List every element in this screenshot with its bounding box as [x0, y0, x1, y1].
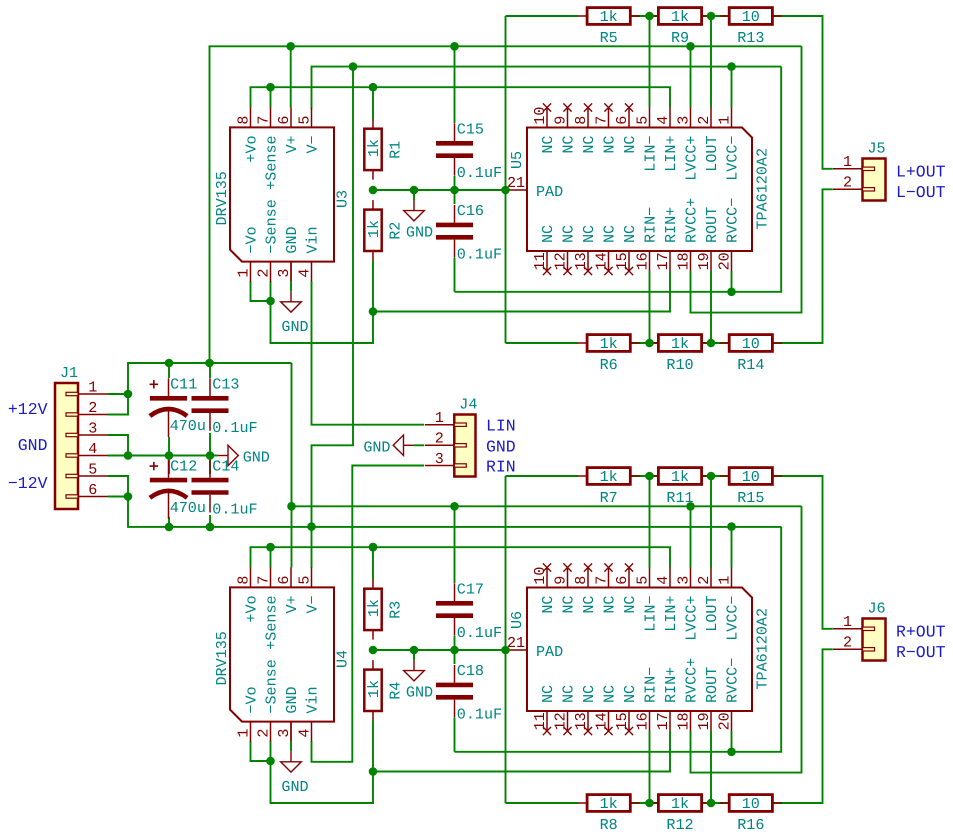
connector J5: [833, 140, 886, 201]
svg-text:3: 3: [88, 419, 97, 437]
svg-text:NC: NC: [601, 136, 619, 154]
svg-text:15: 15: [613, 712, 631, 730]
wire -12V to LVCC- pin1: [731, 67, 733, 108]
svg-text:1: 1: [715, 576, 733, 585]
wire PAD/divider vertical: [505, 16, 507, 343]
resistor R1: [364, 119, 404, 179]
wire +12V rail: [292, 363, 802, 506]
svg-text:1k: 1k: [600, 8, 618, 26]
svg-text:10: 10: [742, 795, 760, 813]
svg-text:13: 13: [572, 712, 590, 730]
svg-text:NC: NC: [621, 596, 639, 614]
svg-text:GND: GND: [243, 448, 270, 466]
svg-text:U6: U6: [508, 611, 526, 629]
svg-text:R1: R1: [387, 141, 405, 159]
svg-text:R4: R4: [387, 682, 405, 700]
pin 21 PAD: [506, 649, 528, 651]
svg-text:L−OUT: L−OUT: [896, 183, 946, 202]
svg-text:L+OUT: L+OUT: [896, 163, 946, 182]
wire -12V down to RVCC-: [455, 67, 782, 292]
resistor R2: [364, 200, 404, 260]
capacitor C17: [436, 581, 502, 642]
svg-text:15: 15: [613, 252, 631, 270]
svg-text:U4: U4: [334, 650, 352, 668]
svg-text:R7: R7: [600, 489, 618, 507]
svg-text:R2: R2: [387, 222, 405, 240]
gnd stub U pin3: [290, 262, 292, 282]
power symbol GND (left facing) at J4: [363, 435, 424, 456]
svg-text:−Vo: −Vo: [243, 226, 261, 253]
wire J1 pins 5+6 -12V: [108, 476, 129, 497]
svg-text:1k: 1k: [365, 599, 383, 617]
svg-text:DRV135: DRV135: [213, 171, 231, 225]
wire +Sense pin7: [270, 547, 272, 567]
junction at 169,526.9: [165, 523, 174, 532]
wire pin19 ROUT vertical: [710, 271, 712, 343]
wire +Sense pin7: [270, 87, 272, 107]
svg-text:NC: NC: [560, 596, 578, 614]
resistor R10: [649, 335, 711, 374]
svg-text:R8: R8: [600, 816, 618, 834]
wire +12V to LVCC+ pin3: [690, 46, 692, 107]
svg-text:16: 16: [633, 252, 651, 270]
svg-text:8: 8: [572, 116, 590, 125]
svg-text:NC: NC: [601, 596, 619, 614]
svg-text:7: 7: [254, 116, 272, 125]
svg-text:1k: 1k: [365, 220, 383, 238]
connector J6: [833, 600, 886, 661]
wire RVCC- pin20: [731, 271, 733, 292]
svg-text:LIN+: LIN+: [662, 596, 680, 632]
svg-text:5: 5: [88, 460, 97, 478]
svg-text:C12: C12: [170, 457, 197, 475]
svg-text:20: 20: [715, 252, 733, 270]
svg-text:V+: V+: [283, 135, 301, 153]
svg-text:TPA6120A2: TPA6120A2: [754, 148, 772, 230]
wire J1 pins 3+4 GND: [108, 435, 214, 456]
svg-text:J4: J4: [459, 396, 477, 414]
svg-text:1k: 1k: [600, 335, 618, 353]
svg-text:2: 2: [254, 269, 272, 278]
svg-text:R5: R5: [600, 29, 618, 47]
junction at 128,394: [124, 390, 133, 399]
svg-text:GND: GND: [18, 436, 48, 455]
svg-text:LIN+: LIN+: [662, 136, 680, 172]
junction at 311.5,526.6: [307, 522, 316, 531]
wire +12V to LVCC+ pin3: [690, 506, 692, 567]
svg-text:4: 4: [88, 440, 97, 458]
wire to output connector pin1: [773, 16, 833, 169]
wire mid divider row: [373, 189, 506, 191]
svg-text:RVCC+: RVCC+: [683, 198, 701, 243]
svg-text:C16: C16: [457, 202, 484, 220]
junction at 270.5,547.2: [266, 543, 275, 552]
svg-text:R3: R3: [387, 601, 405, 619]
wire to output connector pin2: [773, 649, 833, 803]
svg-text:GND: GND: [281, 318, 308, 336]
junction at 414,650: [410, 646, 419, 655]
junction at 128,455.5: [124, 451, 133, 460]
svg-text:3: 3: [275, 729, 293, 738]
svg-text:R16: R16: [737, 816, 764, 834]
svg-text:Vin: Vin: [304, 226, 322, 253]
svg-text:1k: 1k: [600, 795, 618, 813]
svg-text:11: 11: [531, 252, 549, 270]
resistor R11: [649, 468, 711, 507]
svg-text:2: 2: [695, 576, 713, 585]
wire pin16 RIN- vertical: [649, 271, 651, 343]
svg-text:17: 17: [654, 712, 672, 730]
wire pin16 RIN- vertical: [649, 731, 651, 803]
resistor R3: [364, 579, 404, 639]
wire Vin input: [312, 281, 425, 425]
resistor R14: [720, 335, 782, 374]
svg-text:17: 17: [654, 252, 672, 270]
junction at 690.5,46.3: [686, 42, 695, 51]
wire -Vo jog: [251, 281, 271, 301]
svg-text:RIN+: RIN+: [662, 667, 680, 703]
wire feedback row 2: [506, 802, 579, 804]
svg-text:RIN−: RIN−: [642, 207, 660, 243]
svg-text:7: 7: [592, 116, 610, 125]
wire +Vo row: [251, 547, 671, 567]
resistor R13: [720, 8, 782, 47]
svg-text:RVCC+: RVCC+: [683, 658, 701, 703]
svg-text:NC: NC: [580, 685, 598, 703]
resistor R7: [578, 468, 640, 507]
svg-text:U3: U3: [334, 190, 352, 208]
svg-text:NC: NC: [560, 225, 578, 243]
svg-text:C13: C13: [212, 376, 239, 394]
wire -Vo jog: [251, 741, 271, 761]
svg-text:DRV135: DRV135: [213, 631, 231, 685]
junction at 505.5,190: [501, 186, 510, 195]
svg-text:J1: J1: [60, 364, 78, 382]
junction at 210,455.5: [206, 451, 215, 460]
svg-text:NC: NC: [580, 136, 598, 154]
wire to output connector pin2: [773, 189, 833, 343]
svg-text:1k: 1k: [671, 8, 689, 26]
svg-text:470u: 470u: [170, 417, 206, 435]
svg-text:−Sense: −Sense: [263, 199, 281, 253]
svg-text:2: 2: [88, 399, 97, 417]
resistor R16: [720, 795, 782, 834]
svg-text:R14: R14: [737, 356, 764, 374]
wire -12V drop to bottom: [312, 67, 354, 527]
svg-text:GND: GND: [283, 686, 301, 713]
junction at 454.5,190: [450, 186, 459, 195]
svg-text:1: 1: [234, 729, 252, 738]
wire -Sense down: [271, 281, 374, 343]
junction at 711,343: [707, 339, 716, 348]
svg-text:6: 6: [613, 576, 631, 585]
wire cap column: [454, 46, 456, 123]
svg-text:5: 5: [633, 116, 651, 125]
svg-text:V+: V+: [283, 595, 301, 613]
svg-text:3: 3: [435, 450, 444, 468]
svg-text:3: 3: [674, 576, 692, 585]
svg-text:20: 20: [715, 712, 733, 730]
svg-text:NC: NC: [539, 685, 557, 703]
junction at 373,771.5: [369, 767, 378, 776]
pin 21 PAD: [506, 189, 528, 191]
svg-text:8: 8: [572, 576, 590, 585]
wire +Vo row: [251, 87, 671, 107]
svg-text:1: 1: [435, 409, 444, 427]
power symbol GND: [281, 281, 309, 336]
svg-text:7: 7: [592, 576, 610, 585]
svg-text:4: 4: [295, 729, 313, 738]
svg-text:7: 7: [254, 576, 272, 585]
svg-text:PAD: PAD: [536, 183, 563, 201]
svg-text:5: 5: [633, 576, 651, 585]
junction at 209.5,363: [205, 359, 214, 368]
svg-text:GND: GND: [406, 224, 433, 242]
svg-text:14: 14: [592, 712, 610, 730]
junction at 731.5,66.6: [727, 62, 736, 71]
svg-text:R10: R10: [666, 356, 693, 374]
svg-text:1k: 1k: [365, 139, 383, 157]
svg-text:R15: R15: [737, 489, 764, 507]
svg-text:J6: J6: [868, 600, 886, 618]
svg-text:0.1uF: 0.1uF: [457, 705, 502, 723]
capacitor C13: [192, 376, 258, 437]
svg-text:1k: 1k: [671, 335, 689, 353]
junction at 454.5,650: [450, 646, 459, 655]
wire -12V to V- pin5: [311, 527, 313, 568]
svg-text:5: 5: [295, 576, 313, 585]
svg-text:+Sense: +Sense: [263, 135, 281, 189]
wire J1 pins 1+2 +12V: [108, 363, 292, 415]
svg-text:4: 4: [295, 269, 313, 278]
svg-text:470u: 470u: [170, 499, 206, 517]
svg-text:V−: V−: [304, 595, 322, 613]
junction at 711,476: [707, 472, 716, 481]
connector J4: [425, 396, 478, 477]
svg-text:6: 6: [613, 116, 631, 125]
wire pin19 ROUT vertical: [710, 731, 712, 803]
svg-text:10: 10: [742, 335, 760, 353]
power symbol GND (right facing): [214, 445, 270, 466]
junction at 731.5,291.8: [727, 288, 736, 297]
wire +12V to V+ pin6: [290, 46, 292, 107]
wire feedback net row y16: [506, 15, 579, 17]
svg-text:LIN: LIN: [486, 417, 516, 436]
capacitor C16: [436, 202, 502, 263]
IC U3 DRV135: [213, 107, 352, 281]
svg-text:ROUT: ROUT: [703, 667, 721, 703]
junction at 373,650: [369, 646, 378, 655]
junction at 649.5,16: [645, 12, 654, 21]
svg-text:12: 12: [551, 252, 569, 270]
svg-text:GND: GND: [363, 438, 390, 456]
svg-text:NC: NC: [601, 225, 619, 243]
svg-text:19: 19: [695, 252, 713, 270]
gnd stub U pin3: [290, 722, 292, 742]
svg-text:NC: NC: [621, 685, 639, 703]
svg-text:C11: C11: [170, 376, 197, 394]
svg-text:1k: 1k: [600, 468, 618, 486]
svg-text:LVCC+: LVCC+: [683, 136, 701, 181]
svg-text:NC: NC: [621, 136, 639, 154]
svg-text:R+OUT: R+OUT: [896, 623, 946, 642]
junction at 290.7,46.3: [286, 42, 295, 51]
svg-text:NC: NC: [539, 225, 557, 243]
svg-text:V−: V−: [304, 135, 322, 153]
resistor R6: [578, 335, 640, 374]
svg-text:13: 13: [572, 252, 590, 270]
wire filter cap columns: [168, 363, 170, 378]
svg-text:2: 2: [843, 174, 852, 192]
svg-text:GND: GND: [406, 684, 433, 702]
svg-text:R6: R6: [600, 356, 618, 374]
svg-text:0.1uF: 0.1uF: [457, 245, 502, 263]
svg-text:2: 2: [695, 116, 713, 125]
svg-text:RIN: RIN: [486, 458, 516, 477]
svg-text:−12V: −12V: [8, 474, 48, 493]
junction at 649.5,343: [645, 339, 654, 348]
junction at 353,66.6: [349, 62, 358, 71]
svg-text:16: 16: [633, 712, 651, 730]
junction at 454.5,46.3: [450, 42, 459, 51]
svg-text:2: 2: [843, 634, 852, 652]
junction at 649.5,803: [645, 799, 654, 808]
svg-text:LVCC−: LVCC−: [724, 596, 742, 641]
svg-text:R−OUT: R−OUT: [896, 643, 946, 662]
junction at 169,455.5: [165, 451, 174, 460]
svg-text:GND: GND: [486, 437, 516, 456]
resistor R8: [578, 795, 640, 834]
junction at 373,87.2: [369, 83, 378, 92]
svg-text:0.1uF: 0.1uF: [457, 164, 502, 182]
resistor R5: [578, 8, 640, 47]
junction at 731.5,751.8: [727, 748, 736, 757]
connector J1: [55, 364, 108, 509]
junction at 373,190: [369, 186, 378, 195]
svg-text:LVCC+: LVCC+: [683, 596, 701, 641]
svg-text:4: 4: [654, 576, 672, 585]
svg-text:R9: R9: [671, 29, 689, 47]
svg-text:3: 3: [674, 116, 692, 125]
svg-text:R13: R13: [737, 29, 764, 47]
wire +12V down right side: [691, 46, 802, 312]
svg-text:19: 19: [695, 712, 713, 730]
svg-text:LVCC−: LVCC−: [724, 136, 742, 181]
capacitor C15: [436, 121, 502, 182]
junction at 711,803: [707, 799, 716, 808]
svg-text:TPA6120A2: TPA6120A2: [754, 608, 772, 690]
svg-text:NC: NC: [580, 596, 598, 614]
wire R2 bottom to RIN+: [373, 721, 670, 772]
svg-text:+Sense: +Sense: [263, 595, 281, 649]
svg-text:10: 10: [742, 8, 760, 26]
resistor R9: [649, 8, 711, 47]
capacitor C12: [150, 457, 206, 519]
no-connect marks: [543, 563, 551, 571]
junction at 505.5,650: [501, 646, 510, 655]
svg-text:+12V: +12V: [8, 400, 48, 419]
junction at 649.5,476: [645, 472, 654, 481]
svg-text:ROUT: ROUT: [703, 207, 721, 243]
wire mid divider row: [373, 649, 506, 651]
wire -12V down to RVCC-: [455, 527, 782, 752]
wire feedback row 2: [506, 342, 579, 344]
junction at 711,16: [707, 12, 716, 21]
svg-text:11: 11: [531, 712, 549, 730]
power symbol GND: [281, 741, 309, 796]
svg-text:8: 8: [234, 576, 252, 585]
svg-text:C14: C14: [212, 457, 239, 475]
svg-text:RIN+: RIN+: [662, 207, 680, 243]
svg-text:0.1uF: 0.1uF: [457, 624, 502, 642]
svg-text:1: 1: [843, 613, 852, 631]
svg-text:14: 14: [592, 252, 610, 270]
svg-text:9: 9: [551, 116, 569, 125]
svg-text:LIN−: LIN−: [642, 136, 660, 172]
svg-text:−Sense: −Sense: [263, 659, 281, 713]
svg-text:RIN−: RIN−: [642, 667, 660, 703]
IC U5 TPA6120A2: [506, 103, 772, 275]
junction at 373,547.2: [369, 543, 378, 552]
svg-text:1k: 1k: [365, 680, 383, 698]
svg-text:RVCC−: RVCC−: [724, 658, 742, 703]
junction at 731.5,526.6: [727, 522, 736, 531]
svg-text:3: 3: [275, 269, 293, 278]
power symbol GND: [404, 650, 433, 702]
wire pin2 LOUT vertical: [710, 476, 712, 568]
junction at 270.5,547: [266, 543, 275, 552]
junction at 373,311.5: [369, 307, 378, 316]
svg-text:GND: GND: [283, 226, 301, 253]
svg-text:1k: 1k: [671, 795, 689, 813]
resistor R15: [720, 468, 782, 507]
svg-text:LIN−: LIN−: [642, 596, 660, 632]
junction at 128,496.5: [124, 492, 133, 501]
svg-text:+Vo: +Vo: [243, 135, 261, 162]
wire R1 top: [372, 547, 374, 579]
wire R2 bottom to RIN+: [373, 261, 670, 312]
wire Vin input: [312, 466, 425, 762]
svg-text:LOUT: LOUT: [703, 136, 721, 172]
svg-text:2: 2: [254, 729, 272, 738]
capacitor C14: [192, 457, 258, 518]
junction at 690.5,506.3: [686, 502, 695, 511]
junction at 270.5,301: [266, 297, 275, 306]
svg-text:NC: NC: [580, 225, 598, 243]
wire pin2 LOUT vertical: [710, 16, 712, 108]
svg-text:RVCC−: RVCC−: [724, 198, 742, 243]
wire -12V rail: [312, 67, 782, 109]
junction at 270.5,87.2: [266, 83, 275, 92]
svg-text:C18: C18: [457, 662, 484, 680]
capacitor C18: [436, 662, 502, 723]
svg-text:10: 10: [742, 468, 760, 486]
junction at 291.5,506.3: [287, 502, 296, 511]
wire feedback net row y476: [506, 475, 579, 477]
svg-text:1: 1: [843, 153, 852, 171]
svg-text:NC: NC: [539, 596, 557, 614]
svg-text:5: 5: [295, 116, 313, 125]
svg-text:NC: NC: [621, 225, 639, 243]
svg-text:8: 8: [234, 116, 252, 125]
wire +12V to V+ pin6: [291, 506, 293, 567]
wire cap column: [454, 506, 456, 583]
wire -12V rail: [128, 497, 781, 527]
svg-text:4: 4: [654, 116, 672, 125]
svg-text:+Vo: +Vo: [243, 595, 261, 622]
svg-text:2: 2: [435, 430, 444, 448]
svg-text:6: 6: [88, 481, 97, 499]
